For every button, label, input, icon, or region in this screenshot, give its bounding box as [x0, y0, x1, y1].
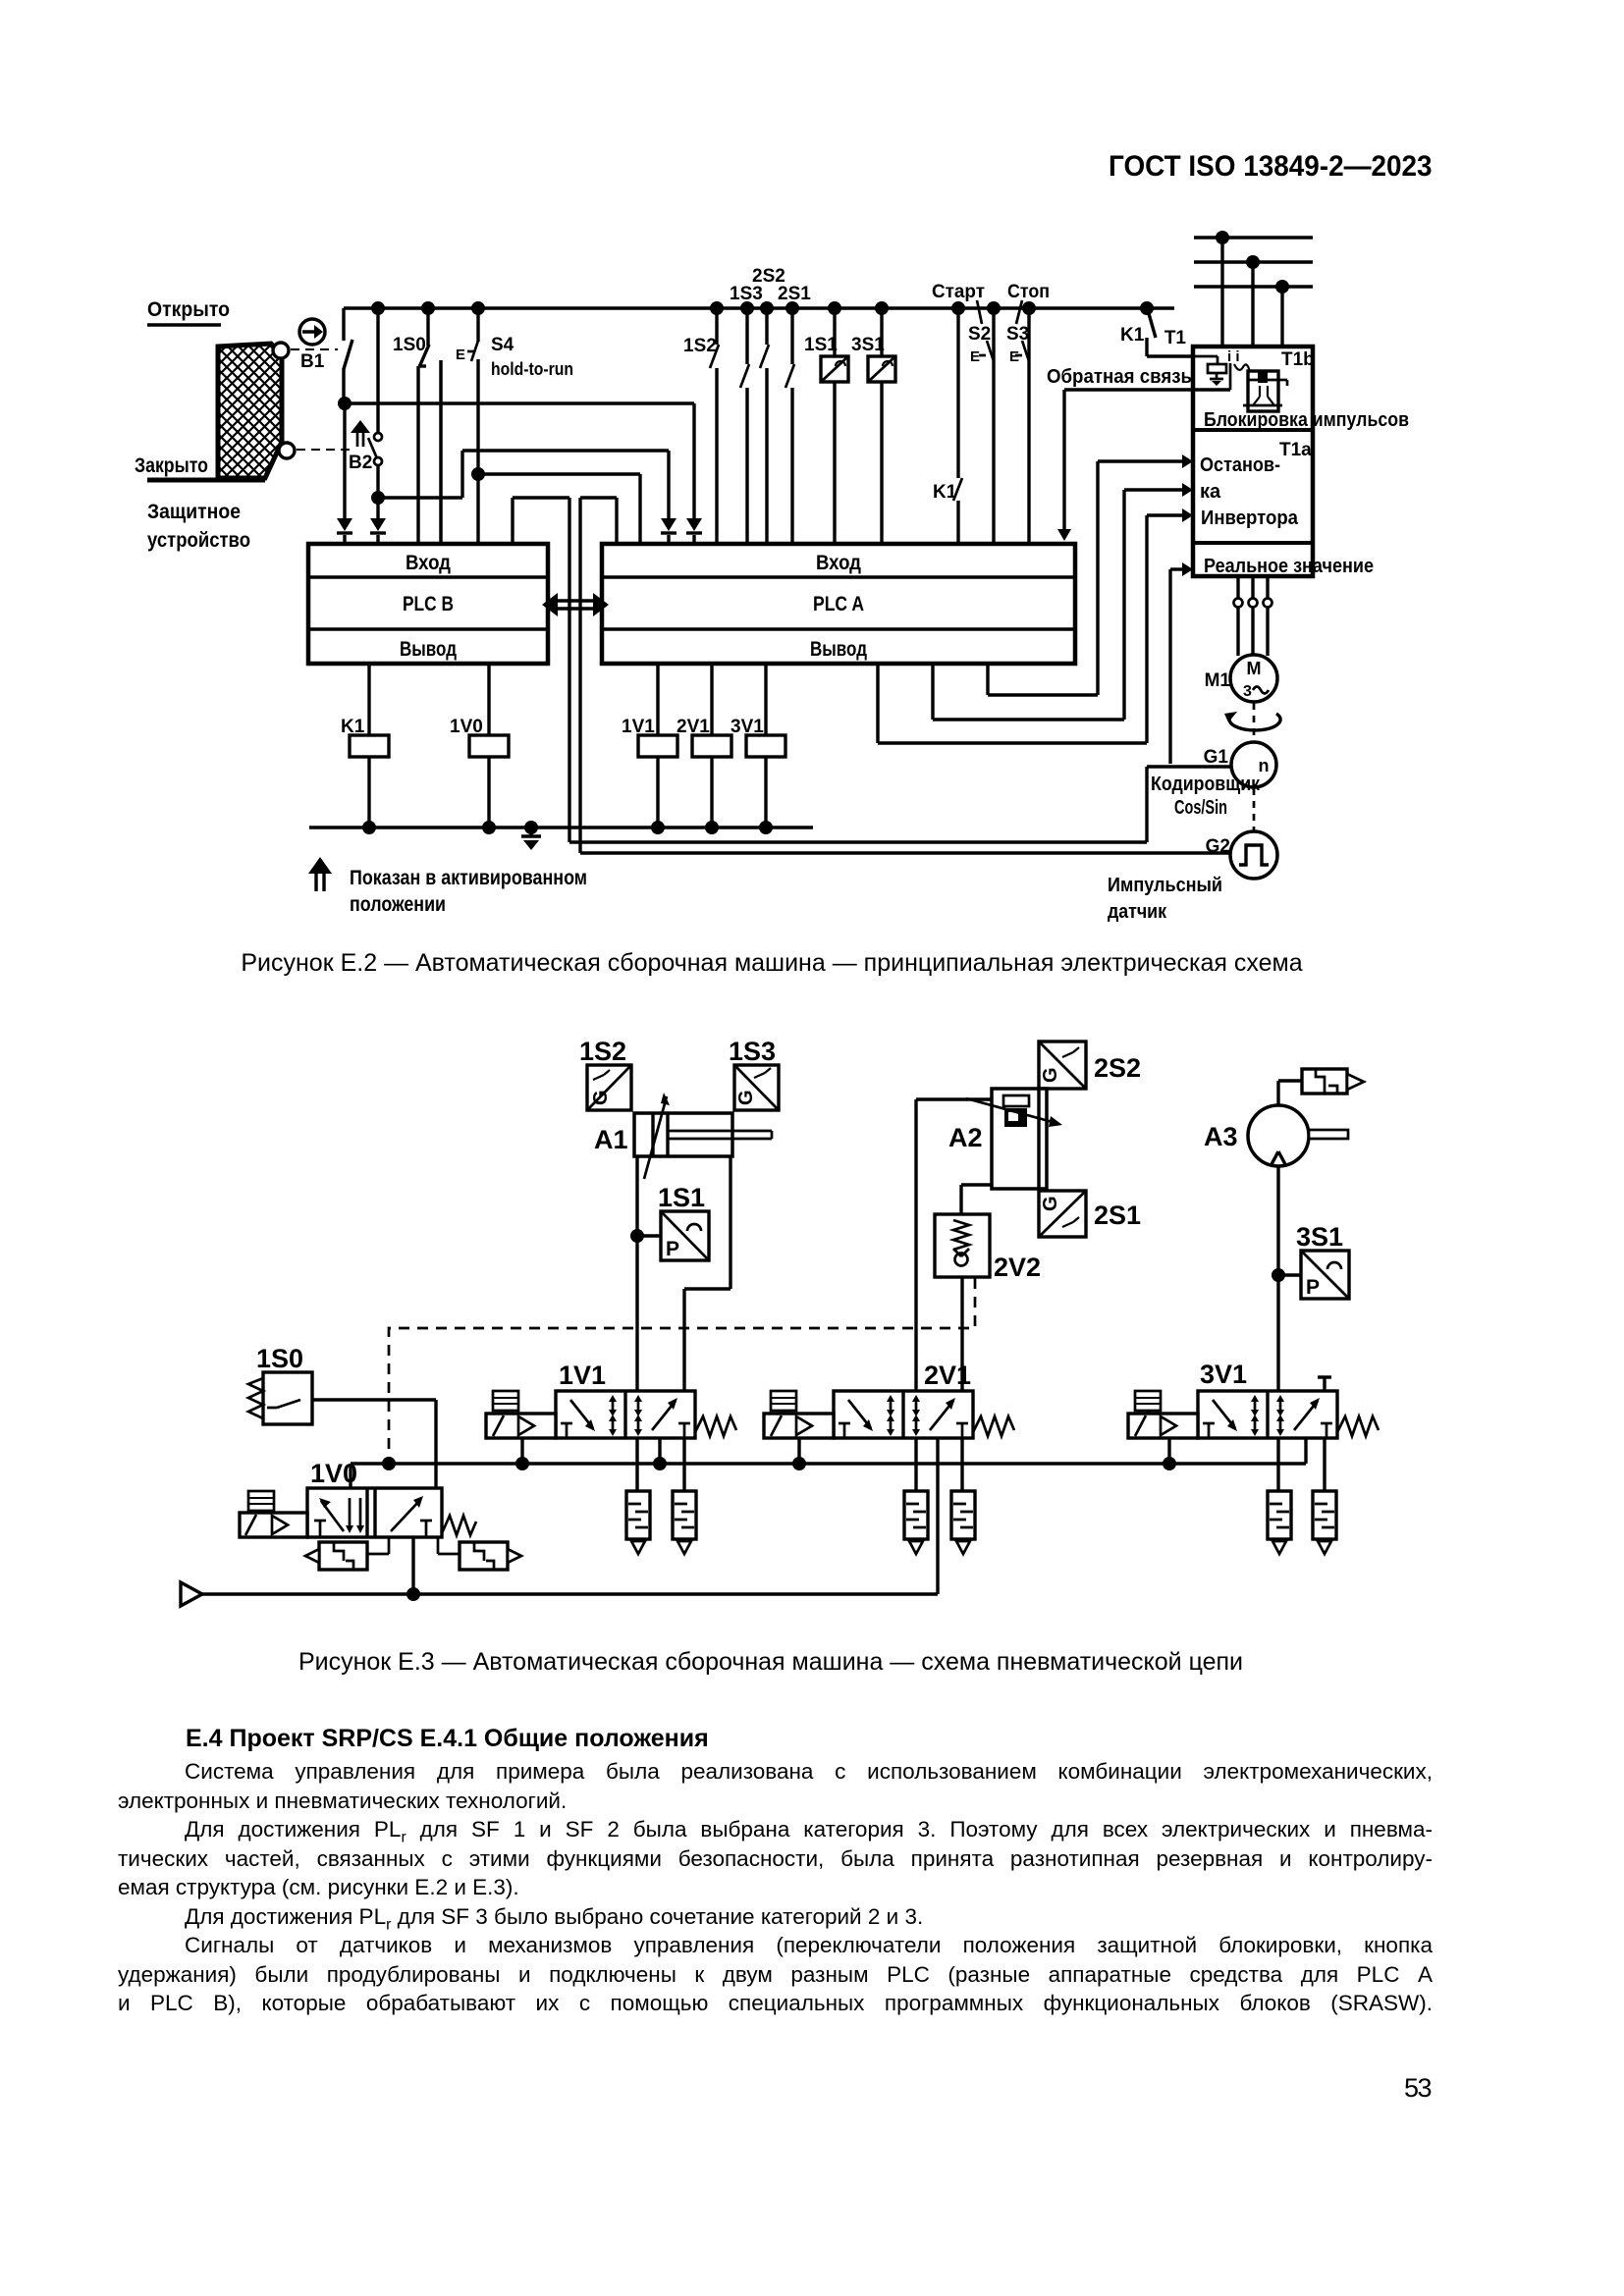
- wire B2 branch to PLC A: [378, 451, 669, 518]
- switch B1: [344, 308, 352, 403]
- svg-text:P: P: [666, 1238, 679, 1260]
- dashed link guard to B1: [291, 348, 338, 350]
- ground bus junction dots: [362, 821, 773, 834]
- svg-text:Кодировщик: Кодировщик: [1151, 774, 1261, 795]
- svg-text:1S0: 1S0: [256, 1344, 303, 1373]
- svg-text:Вход: Вход: [406, 552, 451, 574]
- node B1/second bus junction: [338, 397, 352, 410]
- pushbutton S3 Стоп: [1006, 282, 1050, 546]
- shaft dashed link G1 to G2: [1253, 788, 1256, 830]
- proximity switch 3S1: [851, 308, 895, 546]
- rotation arrow ellipse: [1224, 712, 1280, 730]
- label Защитное устройство: [147, 501, 250, 552]
- stroke arrow A2: [966, 1098, 1062, 1127]
- svg-text:Закрыто: Закрыто: [135, 454, 208, 477]
- node phase L2: [1246, 255, 1260, 347]
- three-phase supply lines: [1194, 238, 1313, 287]
- contact K1 main to T1: [1120, 310, 1194, 356]
- muffler 1: [626, 1491, 650, 1554]
- guard floor line: [147, 478, 265, 483]
- page number 53: [1404, 2073, 1431, 2104]
- label Закрыто: [135, 454, 208, 477]
- svg-text:1S0: 1S0: [393, 335, 426, 355]
- svg-text:G: G: [1040, 1196, 1061, 1211]
- label Останов-ка: [1200, 454, 1280, 503]
- svg-text:устройство: устройство: [147, 529, 250, 552]
- pilot supply bus: [351, 1438, 1306, 1488]
- wire B1 down to PLC B: [343, 403, 346, 518]
- guard door (защитное устройство) hatched panel: [218, 344, 282, 478]
- T1 output wires with terminals: [1234, 576, 1272, 656]
- bottom air supply line: [181, 1582, 938, 1606]
- label Блокировка импульсов: [1204, 409, 1409, 431]
- wire A3 to valve 3V1: [1276, 1166, 1279, 1491]
- switch S4 hold-to-run: [456, 308, 573, 546]
- wire A2 left port to valve 2V1: [916, 1099, 992, 1491]
- label T1a: [1279, 440, 1312, 460]
- svg-text:ка: ка: [1200, 481, 1221, 503]
- svg-text:1S3: 1S3: [730, 284, 763, 304]
- svg-text:Реальное значение: Реальное значение: [1204, 556, 1374, 577]
- valve port stubs to bus: [522, 1438, 1169, 1464]
- check valve with spring 2V2: [935, 1214, 1041, 1282]
- svg-text:2S1: 2S1: [1094, 1201, 1141, 1230]
- actuator symbol B1 (circle arrow): [299, 319, 325, 372]
- svg-text:A1: A1: [594, 1125, 628, 1154]
- svg-text:E: E: [456, 347, 465, 363]
- valve solenoid coil 2V1: [677, 666, 731, 828]
- relay coil 1V0: [450, 666, 509, 828]
- diode on second bus input: [686, 518, 702, 546]
- svg-text:1S1: 1S1: [804, 335, 838, 355]
- label Инвертора: [1201, 507, 1299, 529]
- exhaust muffler A3: [1302, 1069, 1364, 1094]
- second bus wire: [345, 401, 694, 404]
- wire A1 right port to valve 1V1: [684, 1156, 731, 1491]
- diode on B1 input: [337, 518, 352, 546]
- svg-text:PLC A: PLC A: [813, 593, 864, 615]
- svg-text:S4: S4: [491, 335, 514, 355]
- wire 2V2 to valve 2V1: [960, 1277, 963, 1491]
- svg-text:Вход: Вход: [816, 552, 861, 574]
- svg-text:A2: A2: [948, 1123, 983, 1152]
- svg-text:E: E: [1009, 348, 1019, 365]
- svg-text:T1b: T1b: [1281, 349, 1315, 370]
- valve solenoid coil 3V1: [731, 666, 785, 828]
- svg-text:A3: A3: [1204, 1122, 1238, 1151]
- svg-text:G: G: [735, 1090, 757, 1105]
- wire B2 down to PLC B: [376, 498, 379, 518]
- T1b squiggle: [1234, 364, 1256, 378]
- wire G1 to T1 actual value input: [1170, 562, 1193, 764]
- pressure switch 3S1: [1296, 1222, 1349, 1299]
- wire 2V1 supply from bottom line: [936, 1438, 939, 1594]
- section heading E.4: [186, 1725, 709, 1753]
- svg-text:Вывод: Вывод: [810, 638, 867, 661]
- muffler 6: [1313, 1491, 1336, 1554]
- motor M1: [1205, 655, 1277, 702]
- wire A2 to check valve 2V2: [961, 1185, 992, 1214]
- svg-text:n: n: [1259, 756, 1270, 775]
- dashed link guard to B2: [297, 449, 353, 451]
- svg-text:M1: M1: [1205, 670, 1231, 691]
- muffler 2: [673, 1491, 696, 1554]
- svg-text:Старт: Старт: [932, 282, 985, 302]
- 1V0 exhaust right: [438, 1537, 521, 1570]
- label Открыто: [147, 298, 230, 325]
- pushbutton S2 Старт: [932, 282, 994, 546]
- label T1b: [1281, 349, 1315, 370]
- svg-text:2V1: 2V1: [924, 1361, 971, 1390]
- svg-text:S3: S3: [1006, 324, 1029, 345]
- svg-text:B2: B2: [349, 453, 372, 473]
- T1b IGBT module: [1243, 371, 1287, 411]
- svg-text:i i: i i: [1227, 348, 1240, 365]
- stroke arrow A1: [644, 1093, 670, 1179]
- svg-text:3V1: 3V1: [1200, 1360, 1247, 1389]
- switch 1S0 with spring: [248, 1344, 312, 1424]
- wire PLC A to T1 stop input 2: [933, 483, 1193, 720]
- ground symbol: [521, 828, 541, 850]
- wire Обратная связь feedback: [1047, 363, 1230, 541]
- wire PLC A to T1 inverter input: [878, 508, 1193, 743]
- svg-text:hold-to-run: hold-to-run: [491, 359, 573, 379]
- svg-text:E: E: [970, 348, 980, 365]
- svg-text:положении: положении: [350, 893, 446, 916]
- guard hinge circle top: [273, 343, 289, 358]
- body paragraphs: [118, 1757, 1433, 2018]
- air motor A3: [1204, 1105, 1348, 1166]
- muffler 4: [951, 1491, 975, 1554]
- PLC A block: [602, 544, 1075, 664]
- svg-text:3: 3: [1243, 683, 1252, 700]
- 1V0 exhaust left: [305, 1537, 389, 1570]
- bus junction dots: [382, 1457, 1176, 1470]
- inverter block T1: [1164, 328, 1313, 576]
- muffler 5: [1268, 1491, 1291, 1554]
- wire A3 to muffler: [1278, 1081, 1302, 1105]
- svg-text:Защитное: Защитное: [147, 501, 241, 523]
- relay coil K1: [341, 666, 389, 828]
- directional valve 3V1: [1128, 1360, 1379, 1438]
- pressure switch 1S1: [658, 1183, 709, 1260]
- node 3S1 tap: [1272, 1268, 1301, 1282]
- node S4 branch junction: [471, 467, 485, 481]
- wire 1S0 second channel: [439, 360, 443, 546]
- svg-text:G: G: [590, 1090, 612, 1105]
- svg-text:Останов-: Останов-: [1200, 454, 1280, 476]
- svg-text:3S1: 3S1: [1296, 1222, 1343, 1252]
- svg-text:1V0: 1V0: [310, 1459, 357, 1488]
- svg-text:G1: G1: [1204, 747, 1229, 768]
- svg-text:Вывод: Вывод: [400, 638, 457, 661]
- legend activated position: [308, 857, 587, 916]
- wire second bus down to PLC A: [692, 403, 695, 518]
- caption figure E.2: [0, 949, 1543, 978]
- svg-text:Cos/Sin: Cos/Sin: [1174, 797, 1227, 819]
- svg-text:1S2: 1S2: [579, 1037, 626, 1066]
- svg-text:P: P: [1306, 1276, 1320, 1299]
- wire G2 feedback to PLC A: [580, 498, 1231, 853]
- svg-text:М: М: [1247, 659, 1262, 678]
- label Кодировщик Cos/Sin: [1151, 774, 1261, 819]
- sensor link line A2: [1037, 1089, 1040, 1191]
- svg-text:1S3: 1S3: [729, 1037, 776, 1066]
- proximity switch 1S1: [804, 308, 848, 546]
- T1b current sensor: [1194, 356, 1226, 386]
- label Реальное значение: [1204, 556, 1374, 577]
- guard hinge circle bottom: [279, 443, 295, 458]
- position sensor 2S1: [1039, 1191, 1141, 1237]
- position sensor 2S2: [1039, 1041, 1141, 1089]
- svg-text:Стоп: Стоп: [1007, 282, 1050, 302]
- node phase L3: [1275, 280, 1289, 347]
- bus junction dots: [371, 301, 1154, 315]
- switch B2 (reed contacts): [368, 308, 382, 498]
- svg-text:Открыто: Открыто: [147, 298, 230, 321]
- node B2 branch junction: [371, 491, 385, 505]
- top supply bus wire: [344, 306, 1174, 309]
- wire 3V1 exhaust port: [1318, 1377, 1331, 1491]
- directional valve 2V1: [764, 1361, 1014, 1438]
- wire G1 feedback to PLC B: [513, 498, 1232, 842]
- T1b label i,i: [1227, 348, 1240, 365]
- svg-text:Блокировка импульсов: Блокировка импульсов: [1204, 409, 1409, 431]
- encoder G1: [1204, 742, 1276, 787]
- wire S4 branch to PLC A: [478, 474, 640, 546]
- switch 2S2: [752, 266, 785, 546]
- svg-text:Показан в активированном: Показан в активированном: [350, 867, 587, 889]
- caption figure E.3: [0, 1648, 1542, 1677]
- svg-text:G: G: [1040, 1067, 1061, 1083]
- svg-text:Импульсный: Импульсный: [1108, 875, 1222, 896]
- node 1S1 tap: [630, 1229, 661, 1243]
- svg-text:1S1: 1S1: [658, 1183, 705, 1212]
- switch 2S1: [778, 284, 811, 546]
- shaft dashed link motor to G1: [1253, 703, 1256, 741]
- svg-text:T1: T1: [1164, 328, 1187, 348]
- position sensor 1S2: [579, 1037, 631, 1110]
- cylinder A1: [594, 1113, 772, 1156]
- label Импульсный датчик: [1108, 875, 1222, 923]
- diode on B2 input: [370, 518, 386, 546]
- PLC B block: [308, 544, 548, 664]
- svg-text:PLC B: PLC B: [403, 593, 454, 615]
- actuated-position arrow at B2: [349, 420, 372, 473]
- node 1V0 supply: [406, 1537, 420, 1601]
- switch 1S0: [393, 308, 429, 546]
- svg-text:2V2: 2V2: [994, 1253, 1041, 1282]
- directional valve 1V1: [486, 1361, 736, 1438]
- shut-off valve 1V0: [240, 1459, 476, 1537]
- svg-text:B1: B1: [300, 351, 325, 372]
- svg-text:1S2: 1S2: [683, 336, 717, 356]
- switch 1S3: [730, 284, 763, 546]
- diode on B2 branch input: [661, 518, 677, 546]
- muffler 3: [904, 1491, 928, 1554]
- gripper A2: [948, 1089, 1047, 1189]
- dashed pilot control line: [389, 1278, 975, 1464]
- svg-text:Обратная связь: Обратная связь: [1047, 366, 1192, 388]
- svg-text:датчик: датчик: [1108, 901, 1167, 923]
- position sensor 1S3: [729, 1037, 779, 1110]
- wire A1 left port to valve 1V1: [635, 1156, 638, 1491]
- svg-text:1V1: 1V1: [559, 1361, 606, 1390]
- wire PLC A to T1 stop input 1: [988, 454, 1193, 695]
- pulse sensor G2: [1206, 831, 1277, 879]
- svg-text:T1a: T1a: [1279, 440, 1312, 460]
- switch 1S2: [683, 308, 719, 546]
- svg-text:3S1: 3S1: [851, 335, 885, 355]
- PLC interconnect double arrow: [542, 593, 609, 616]
- svg-text:2S2: 2S2: [1094, 1053, 1141, 1083]
- svg-text:K1: K1: [1120, 325, 1145, 346]
- document header: ГОСТ ISO 13849-2—2023: [1109, 150, 1433, 184]
- svg-text:G2: G2: [1206, 836, 1230, 857]
- node phase L1: [1216, 231, 1229, 347]
- svg-text:2S1: 2S1: [778, 284, 811, 304]
- wire 1S0 to valve 1V0: [312, 1400, 436, 1488]
- valve solenoid coil 1V1: [622, 666, 677, 828]
- ground bus wire: [309, 826, 813, 828]
- contact K1 self-hold: [933, 308, 962, 546]
- svg-text:Инвертора: Инвертора: [1201, 507, 1299, 529]
